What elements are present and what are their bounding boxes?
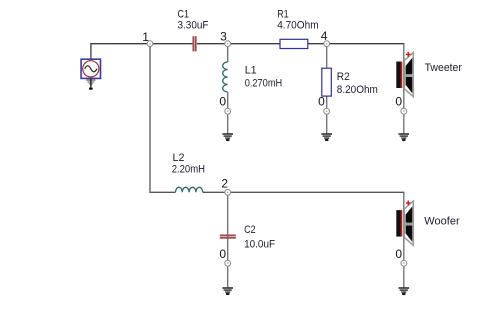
node 4 junction [324, 41, 330, 47]
node 0 pin under tweeter [401, 108, 407, 114]
ground under woofer [399, 288, 410, 295]
speaker: Woofer symbol [396, 201, 413, 246]
wire: L2 right pin to node 2 [203, 191, 228, 193]
svg-text:L1: L1 [245, 65, 257, 77]
svg-text:Tweeter: Tweeter [425, 62, 463, 74]
inductor L1 (vertical coil) [223, 62, 228, 92]
capacitor C1 (plates) [193, 36, 197, 51]
node 0 pin under C2 [225, 260, 231, 266]
wire: node 4 down through R2 to ground [326, 44, 328, 134]
node 0 pin under L1 [225, 108, 231, 114]
wire: node 1 to C1 left plate [150, 43, 192, 45]
svg-text:3.30uF: 3.30uF [178, 20, 209, 32]
wire: C1 right plate to node 3 [197, 43, 228, 45]
wire: L1 bottom pin down to ground [227, 92, 229, 134]
svg-text:Woofer: Woofer [424, 216, 460, 228]
voltage source V1 (AC source symbol) [81, 59, 100, 78]
svg-text:0: 0 [219, 94, 226, 108]
resistor R1 (box) [280, 39, 308, 48]
inductor L2 (horizontal coil) [176, 187, 203, 192]
node 0 pin under R2 [324, 108, 330, 114]
resistor R2 (box) [322, 68, 332, 96]
wire: node 2 down through C2 to ground [227, 192, 229, 287]
svg-text:8.20Ohm: 8.20Ohm [337, 84, 378, 96]
wire: node 2 to woofer branch corner [228, 191, 405, 193]
ground: source ground symbol below V1 [86, 79, 95, 89]
svg-text:1: 1 [142, 30, 149, 44]
svg-text:4.70Ohm: 4.70Ohm [277, 20, 318, 32]
wire: source top pin up to main rail [90, 44, 92, 59]
wire: main top rail from source corner to node 1 [90, 43, 150, 45]
svg-text:0.270mH: 0.270mH [245, 77, 283, 89]
node 3 junction [225, 41, 231, 47]
svg-text:0: 0 [219, 247, 226, 261]
svg-text:2.20mH: 2.20mH [172, 164, 205, 176]
ground under tweeter [399, 134, 410, 141]
svg-text:4: 4 [321, 29, 328, 43]
wire: node 4 to tweeter branch corner [327, 43, 405, 45]
svg-text:C2: C2 [244, 224, 256, 236]
svg-text:3: 3 [220, 29, 227, 43]
capacitor C2 (horizontal plates) [220, 235, 236, 239]
svg-text:0: 0 [395, 247, 402, 261]
wire: lower rail node1 corner to L2 left pin [149, 191, 175, 193]
wire: node 1 vertical drop to lower rail [149, 44, 151, 193]
svg-text:L2: L2 [173, 152, 185, 164]
speaker: Tweeter symbol [396, 52, 413, 97]
svg-text:0: 0 [318, 94, 325, 108]
ground under L1 [222, 134, 233, 141]
svg-text:0: 0 [395, 94, 402, 108]
wire: node 3 down to L1 top pin [227, 44, 229, 62]
wire: node 3 to node 4 (passes under R1) [228, 43, 327, 45]
svg-text:R2: R2 [337, 71, 350, 83]
node 0 pin under woofer [401, 260, 407, 266]
svg-text:2: 2 [221, 176, 228, 190]
node 2 junction [225, 189, 231, 195]
svg-text:10.0uF: 10.0uF [244, 239, 275, 251]
wire: tweeter vertical drop to ground [403, 44, 405, 134]
wire: woofer vertical drop to ground [403, 192, 405, 287]
ground under C2 [222, 288, 233, 295]
ground under R2 [321, 134, 332, 141]
node 1 junction [147, 41, 153, 47]
